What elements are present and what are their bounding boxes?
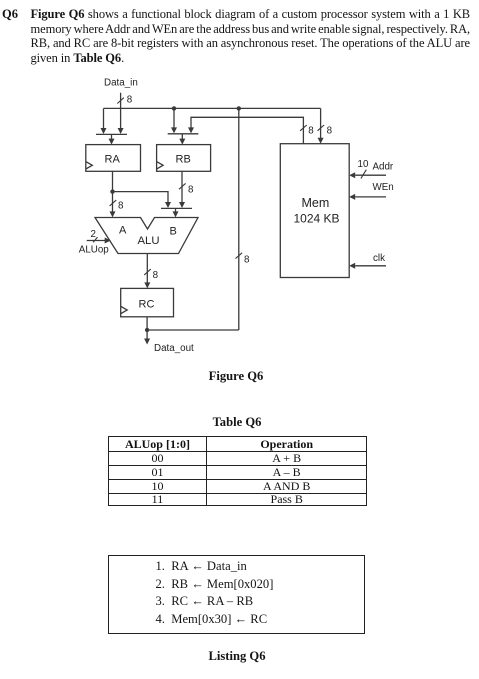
svg-text:RC: RC bbox=[139, 299, 155, 311]
wire ALUop control input bbox=[87, 238, 111, 244]
question number Q6 bbox=[2, 7, 18, 22]
svg-text:Addr: Addr bbox=[373, 162, 394, 173]
figure Q6 schematic bbox=[0, 0, 479, 400]
bus-width slash on ALU output bbox=[144, 269, 151, 275]
node RB input bar bbox=[168, 133, 199, 135]
wire RA output branch to ALU B input bar bbox=[113, 192, 172, 208]
svg-text:8: 8 bbox=[153, 270, 159, 281]
wire Addr input to Mem bbox=[349, 172, 386, 178]
bus-width slash on Data_out vertical bbox=[236, 253, 243, 259]
svg-text:RB: RB bbox=[176, 154, 191, 166]
svg-text:8: 8 bbox=[127, 94, 133, 105]
bus-width slash on Mem data input bbox=[318, 125, 325, 131]
wire WEn input to Mem bbox=[349, 194, 386, 200]
bus-width slash on Data_in wire bbox=[117, 98, 124, 104]
wire bus drop to RB input bar bbox=[171, 108, 177, 133]
op-amp style ALU body bbox=[95, 218, 198, 254]
caption Figure Q6 bbox=[136, 369, 336, 384]
wire bus right drop into Mem data input bbox=[318, 108, 324, 143]
bus-width slash on Addr bbox=[361, 170, 366, 179]
svg-text:8: 8 bbox=[327, 125, 333, 136]
wire bus left drop to RA input bar bbox=[101, 108, 107, 134]
wire RA input bar to RA bbox=[109, 134, 115, 144]
RA clock triangle bbox=[86, 162, 93, 169]
junction on RA output bbox=[110, 189, 114, 193]
wire data bus horizontal bbox=[104, 107, 321, 109]
svg-text:ALU: ALU bbox=[138, 235, 160, 247]
wire RB input bar to RB bbox=[179, 134, 185, 145]
wire clk input to Mem bbox=[349, 263, 386, 269]
svg-text:clk: clk bbox=[373, 253, 385, 264]
svg-text:8: 8 bbox=[244, 254, 250, 265]
svg-text:Mem: Mem bbox=[302, 196, 330, 210]
intro paragraph bbox=[31, 7, 471, 66]
memory Mem 1024 KB bbox=[280, 144, 349, 278]
svg-text:B: B bbox=[170, 226, 177, 238]
svg-text:Data_in: Data_in bbox=[104, 78, 138, 89]
caption Table Q6 bbox=[137, 415, 337, 430]
svg-text:2: 2 bbox=[91, 229, 96, 240]
register RC bbox=[121, 288, 174, 316]
wire Data_in vertical into RA input bar bbox=[118, 93, 124, 134]
listing box bbox=[108, 555, 365, 635]
wire ALU output to RC bbox=[144, 254, 150, 289]
RC clock triangle bbox=[121, 306, 128, 313]
bus-width slash on RA output bbox=[110, 200, 117, 206]
register RA bbox=[86, 145, 141, 172]
wire RC output / Data_out bbox=[144, 317, 150, 345]
bus-width slash on Mem data output bbox=[300, 125, 307, 131]
junction on bus (to Data_out line) bbox=[237, 106, 241, 110]
svg-text:1024 KB: 1024 KB bbox=[294, 212, 340, 226]
svg-text:WEn: WEn bbox=[373, 182, 394, 193]
svg-text:Data_out: Data_out bbox=[154, 343, 194, 354]
svg-text:RA: RA bbox=[105, 154, 121, 166]
bus-width slash on RB output bbox=[179, 183, 186, 189]
wire vertical bus to Data_out junction bbox=[238, 108, 240, 330]
svg-text:10: 10 bbox=[358, 159, 369, 170]
RB clock triangle bbox=[157, 162, 164, 169]
node ALU B input bar bbox=[161, 207, 192, 209]
svg-text:8: 8 bbox=[118, 201, 124, 212]
wire Data_out node to bus vertical bbox=[147, 329, 239, 331]
table Q6 bbox=[108, 436, 367, 506]
wire RB output to ALU B input bar bbox=[179, 171, 185, 208]
node RA input bar bbox=[96, 133, 127, 135]
wire RA output to ALU A input bbox=[110, 171, 116, 217]
svg-text:8: 8 bbox=[308, 125, 314, 136]
svg-text:A: A bbox=[119, 225, 127, 237]
svg-text:8: 8 bbox=[188, 184, 194, 195]
svg-text:ALUop: ALUop bbox=[79, 245, 110, 256]
caption Listing Q6 bbox=[137, 649, 337, 664]
bus-width slash on ALUop bbox=[93, 237, 97, 242]
register RB bbox=[157, 145, 211, 172]
junction on bus (to RB) bbox=[172, 106, 176, 110]
wire B bar into ALU bbox=[173, 208, 179, 217]
wire Mem data output to RB input bar bbox=[188, 117, 303, 143]
junction Data_out node bbox=[145, 328, 149, 332]
